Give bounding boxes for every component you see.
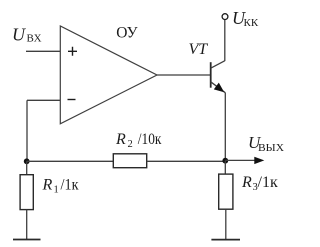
output label Uвых bbox=[248, 133, 284, 154]
wire R1 to ground bbox=[26, 210, 28, 240]
wire node B to R3 bbox=[224, 161, 226, 174]
svg-text:R: R bbox=[241, 174, 252, 191]
ground left bbox=[13, 239, 41, 241]
ground right bbox=[211, 239, 240, 241]
svg-text:КК: КК bbox=[244, 17, 259, 29]
wire R3 to ground bbox=[225, 209, 227, 239]
svg-text:2: 2 bbox=[128, 139, 133, 150]
wire node A to R1 bbox=[26, 161, 28, 174]
svg-text:ВХ: ВХ bbox=[27, 33, 42, 45]
wire + input bbox=[26, 50, 60, 52]
wire emitter down bbox=[224, 93, 226, 161]
svg-text:R: R bbox=[42, 177, 53, 194]
svg-text:/1к: /1к bbox=[258, 174, 278, 191]
svg-text:VT: VT bbox=[189, 41, 209, 58]
wire bottom left bbox=[27, 160, 114, 162]
svg-text:U: U bbox=[12, 25, 26, 45]
op-amp U1 bbox=[60, 26, 157, 124]
svg-text:/1к: /1к bbox=[61, 177, 79, 194]
wire bottom right bbox=[147, 160, 226, 162]
resistor R1 bbox=[20, 175, 33, 210]
wire collector up bbox=[224, 20, 226, 61]
supply label Uкк bbox=[232, 8, 259, 29]
svg-text:1: 1 bbox=[54, 185, 59, 196]
wire feedback vertical bbox=[26, 100, 28, 161]
svg-text:ОУ: ОУ bbox=[116, 25, 137, 42]
svg-text:/10к: /10к bbox=[138, 131, 162, 148]
transistor Q1 VT bbox=[211, 61, 226, 93]
label R3 /1к bbox=[241, 174, 278, 193]
svg-text:R: R bbox=[115, 131, 126, 148]
label R2 /10к bbox=[115, 131, 162, 150]
node A left junction bbox=[24, 158, 30, 164]
label R1 /1к bbox=[42, 177, 79, 196]
input label Uвх bbox=[12, 25, 42, 45]
node B right junction bbox=[222, 158, 228, 164]
wire op-amp output to base bbox=[157, 74, 211, 76]
svg-text:ВЫХ: ВЫХ bbox=[258, 142, 284, 154]
resistor R2 bbox=[113, 154, 146, 168]
terminal Uкк circle bbox=[222, 14, 228, 20]
output arrow Uвых bbox=[225, 157, 264, 164]
wire - input bbox=[27, 99, 60, 101]
resistor R3 bbox=[219, 174, 233, 209]
